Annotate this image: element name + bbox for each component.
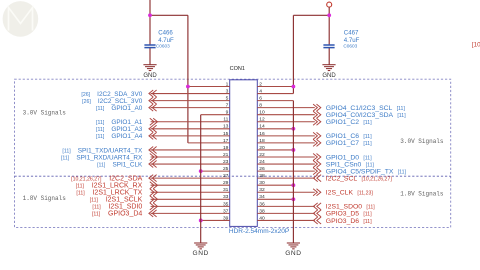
svg-text:38: 38 bbox=[259, 208, 265, 214]
svg-text:3.0V Signals: 3.0V Signals bbox=[400, 138, 444, 145]
svg-text:GND: GND bbox=[143, 73, 157, 79]
svg-text:5: 5 bbox=[226, 96, 229, 102]
svg-text:18: 18 bbox=[259, 138, 265, 144]
svg-text:15: 15 bbox=[223, 131, 229, 137]
svg-text:39: 39 bbox=[223, 215, 229, 221]
svg-text:24: 24 bbox=[259, 159, 265, 165]
svg-text:34: 34 bbox=[259, 194, 265, 200]
svg-text:[11] GPIO1_A4: [11] GPIO1_A4 bbox=[96, 133, 143, 140]
svg-text:C0603: C0603 bbox=[343, 44, 357, 49]
svg-text:13: 13 bbox=[223, 124, 229, 130]
svg-text:29: 29 bbox=[223, 180, 229, 186]
svg-text:35: 35 bbox=[223, 201, 229, 207]
svg-text:HDR-2.54mm-2x20P: HDR-2.54mm-2x20P bbox=[229, 228, 289, 235]
svg-text:40: 40 bbox=[259, 215, 265, 221]
svg-text:GPIO1_C2 [11]: GPIO1_C2 [11] bbox=[326, 119, 372, 126]
svg-text:I2C2_SCL [10,21,26,27]: I2C2_SCL [10,21,26,27] bbox=[326, 175, 393, 182]
svg-text:GPIO1_C6 [11]: GPIO1_C6 [11] bbox=[326, 133, 372, 140]
svg-text:[26] I2C2_SCL_3V0: [26] I2C2_SCL_3V0 bbox=[82, 98, 143, 105]
svg-text:33: 33 bbox=[223, 194, 229, 200]
svg-text:7: 7 bbox=[226, 103, 229, 109]
svg-text:I2S_CLK [11,23]: I2S_CLK [11,23] bbox=[326, 190, 374, 197]
svg-text:4: 4 bbox=[259, 88, 262, 94]
svg-text:GND: GND bbox=[193, 250, 209, 257]
svg-text:11: 11 bbox=[223, 117, 228, 123]
svg-text:14: 14 bbox=[259, 124, 265, 130]
svg-text:GPIO3_D5 [11]: GPIO3_D5 [11] bbox=[326, 211, 372, 218]
svg-text:GND: GND bbox=[285, 250, 301, 257]
svg-text:[11] GPIO1_A1: [11] GPIO1_A1 bbox=[96, 119, 143, 126]
svg-text:2: 2 bbox=[259, 81, 262, 87]
svg-text:[11] I2S1_LRCK_TX: [11] I2S1_LRCK_TX bbox=[76, 190, 142, 197]
svg-text:[11] GPIO1_A3: [11] GPIO1_A3 bbox=[96, 126, 143, 133]
svg-text:C466: C466 bbox=[158, 30, 173, 37]
svg-text:19: 19 bbox=[223, 145, 229, 151]
svg-text:12: 12 bbox=[259, 117, 265, 123]
svg-text:[10]: [10] bbox=[472, 41, 480, 48]
svg-text:23: 23 bbox=[223, 159, 229, 165]
svg-text:9: 9 bbox=[226, 110, 229, 116]
svg-text:25: 25 bbox=[223, 166, 229, 172]
svg-text:8: 8 bbox=[259, 103, 262, 109]
svg-text:[11] I2S1_SCLK: [11] I2S1_SCLK bbox=[90, 197, 143, 204]
svg-text:[11] GPIO1_A0: [11] GPIO1_A0 bbox=[96, 105, 143, 112]
svg-text:32: 32 bbox=[259, 187, 265, 193]
svg-text:26: 26 bbox=[259, 166, 265, 172]
svg-text:1.8V Signals: 1.8V Signals bbox=[400, 190, 444, 197]
svg-text:C0603: C0603 bbox=[156, 44, 170, 49]
svg-text:36: 36 bbox=[259, 201, 265, 207]
svg-text:10: 10 bbox=[259, 110, 265, 116]
svg-text:30: 30 bbox=[259, 180, 265, 186]
svg-text:[11] SPI1_RXD/UART4_RX: [11] SPI1_RXD/UART4_RX bbox=[61, 154, 143, 161]
svg-text:C467: C467 bbox=[344, 30, 359, 37]
svg-text:CON1: CON1 bbox=[230, 66, 245, 72]
svg-text:37: 37 bbox=[223, 208, 229, 214]
svg-text:[11] SPI1_CLK: [11] SPI1_CLK bbox=[97, 161, 143, 168]
svg-text:[10,21,26,27] I2C2_SDA: [10,21,26,27] I2C2_SDA bbox=[71, 175, 142, 182]
svg-text:27: 27 bbox=[223, 173, 229, 179]
svg-text:6: 6 bbox=[259, 96, 262, 102]
svg-text:20: 20 bbox=[259, 145, 265, 151]
svg-text:28: 28 bbox=[259, 173, 265, 179]
svg-text:GPIO4_C5/SPDIF_TX [11]: GPIO4_C5/SPDIF_TX [11] bbox=[326, 168, 407, 175]
svg-text:[11] I2S1_SDI0: [11] I2S1_SDI0 bbox=[92, 204, 142, 211]
svg-text:GPIO3_D6 [11]: GPIO3_D6 [11] bbox=[326, 218, 372, 225]
svg-text:GPIO1_C7 [11]: GPIO1_C7 [11] bbox=[326, 140, 372, 147]
svg-text:GND: GND bbox=[322, 73, 336, 79]
svg-text:31: 31 bbox=[223, 187, 229, 193]
svg-text:GPIO4_C0/I2C3_SDA [11]: GPIO4_C0/I2C3_SDA [11] bbox=[326, 112, 406, 119]
svg-text:SPI1_CSn0 [11]: SPI1_CSn0 [11] bbox=[326, 161, 375, 168]
svg-text:3.0V Signals: 3.0V Signals bbox=[23, 109, 67, 116]
svg-text:21: 21 bbox=[223, 152, 229, 158]
svg-text:1: 1 bbox=[226, 81, 229, 87]
svg-text:17: 17 bbox=[223, 138, 229, 144]
svg-text:GPIO1_D0 [11]: GPIO1_D0 [11] bbox=[326, 154, 372, 161]
svg-text:GPIO4_C1/I2C3_SCL [11]: GPIO4_C1/I2C3_SCL [11] bbox=[326, 105, 406, 112]
svg-text:[11] GPIO3_D4: [11] GPIO3_D4 bbox=[92, 211, 142, 218]
svg-text:16: 16 bbox=[259, 131, 265, 137]
svg-text:3: 3 bbox=[226, 88, 229, 94]
svg-text:[11] I2S1_LRCK_RX: [11] I2S1_LRCK_RX bbox=[76, 183, 143, 190]
svg-text:[11] SPI1_TXD/UART4_TX: [11] SPI1_TXD/UART4_TX bbox=[62, 147, 143, 154]
svg-text:1.8V Signals: 1.8V Signals bbox=[23, 195, 67, 202]
svg-text:I2S1_SDO0 [11]: I2S1_SDO0 [11] bbox=[326, 204, 375, 211]
svg-text:22: 22 bbox=[259, 152, 265, 158]
svg-text:[26] I2C2_SDA_3V0: [26] I2C2_SDA_3V0 bbox=[81, 91, 142, 98]
